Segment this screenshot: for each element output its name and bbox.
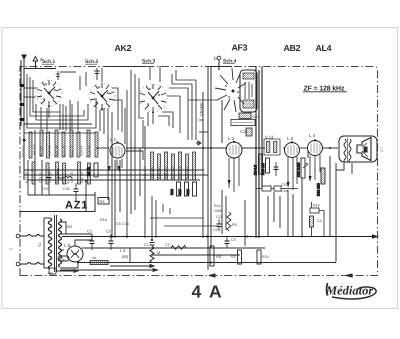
wire bus y124 <box>24 123 92 125</box>
svg-text:C47: C47 <box>42 187 49 191</box>
svg-text:R11 0.5M: R11 0.5M <box>297 162 301 177</box>
cluster R18 C4 <box>310 202 325 236</box>
coil L11 <box>54 132 65 157</box>
svg-text:R6 2k: R6 2k <box>86 167 90 176</box>
antenna terminal A <box>22 55 26 66</box>
wire drops Sch.1 to coils <box>24 101 104 134</box>
svg-text:S9 180: S9 180 <box>39 146 43 157</box>
svg-text:C11: C11 <box>216 215 222 219</box>
svg-text:(M): (M) <box>122 254 129 259</box>
resistor R16 vertical <box>170 182 181 196</box>
Mediator logo <box>325 283 376 299</box>
svg-text:R4: R4 <box>100 199 106 204</box>
earth terminal <box>33 57 43 70</box>
switch rosette Sch.2 <box>89 83 115 109</box>
secondary taps <box>60 222 78 268</box>
svg-text:C1: C1 <box>87 229 93 234</box>
svg-text:R18: R18 <box>313 204 320 208</box>
wire verticals mid-left column <box>203 67 222 271</box>
svg-text:C9: C9 <box>213 228 218 232</box>
wire bus y255 <box>152 254 240 256</box>
cathode arrow L2 <box>228 180 231 186</box>
coil L14 <box>79 130 90 157</box>
coil L9 <box>39 132 50 158</box>
capacitor trimmer near Sch.2 <box>94 68 100 80</box>
svg-text:C6: C6 <box>231 238 236 242</box>
tube L1 <box>110 137 125 170</box>
capacitor C2 power <box>106 229 114 251</box>
coil group under Sch3 g1 <box>143 152 154 180</box>
svg-text:R1p: R1p <box>100 218 107 222</box>
resistor ws hatched <box>90 256 108 265</box>
wire loops below Sch.2 <box>80 68 122 136</box>
junction blobs on rail <box>20 84 26 141</box>
IF transformer S13 <box>264 135 280 156</box>
output transformer and speaker <box>323 136 377 163</box>
svg-text:C49: C49 <box>281 189 288 193</box>
svg-text:S14 60: S14 60 <box>79 145 83 156</box>
svg-text:4.7: 4.7 <box>380 147 384 152</box>
svg-text:L 5: L 5 <box>64 243 71 248</box>
resistor R19 vertical <box>186 182 197 196</box>
coil L7 <box>21 132 32 158</box>
label Sch.1 <box>42 59 56 65</box>
svg-text:C57: C57 <box>281 183 288 187</box>
svg-text:S11 88: S11 88 <box>54 145 58 156</box>
resistor R9 under L3 <box>254 154 263 175</box>
resistor R13 under L4 <box>317 168 326 196</box>
resistor R8 <box>210 246 221 266</box>
choke L6 label <box>120 248 129 259</box>
cathode arrow L1 b <box>118 166 121 172</box>
svg-text:S21 105: S21 105 <box>178 166 182 179</box>
svg-text:AB2: AB2 <box>284 43 301 53</box>
wire mid horizontal y218 <box>150 217 203 219</box>
svg-text:L 2: L 2 <box>228 136 235 141</box>
wire verticals under Sch3 to bus <box>108 126 145 238</box>
mains terminal upper <box>16 234 20 238</box>
capacitor C6 <box>225 237 236 248</box>
cathode arrow L4 <box>309 176 312 182</box>
svg-text:S22 125: S22 125 <box>185 166 189 179</box>
tube L3 <box>285 136 300 190</box>
svg-text:S2: S2 <box>67 224 73 229</box>
cluster C49 <box>256 183 298 193</box>
wire bus y262 <box>78 262 336 264</box>
svg-text:C1: C1 <box>144 243 149 247</box>
svg-text:L 4: L 4 <box>309 133 316 138</box>
svg-text:ws: ws <box>92 256 97 260</box>
svg-text:S 13: S 13 <box>265 135 274 140</box>
svg-text:R17: R17 <box>178 189 182 195</box>
power transformer S1 <box>38 215 62 272</box>
potentiometer R11 <box>297 158 309 178</box>
wire top bus into Sch rosettes <box>24 67 232 73</box>
svg-text:S7 200: S7 200 <box>21 146 25 157</box>
wire loops below Sch.1 <box>27 74 96 133</box>
coil group under Sch3 g2 <box>150 154 161 180</box>
resistor M1 <box>150 246 160 263</box>
coil group under Sch3 g3 <box>157 152 168 180</box>
wire mid horizontal y226 <box>164 225 219 227</box>
capacitor C47 <box>42 168 52 191</box>
svg-text:L 6: L 6 <box>120 248 126 253</box>
svg-text:S10 55: S10 55 <box>47 145 51 156</box>
wire heavy middle bundle <box>256 67 262 239</box>
cluster R1p C11 above <box>213 204 222 232</box>
coil L8 <box>32 130 43 156</box>
svg-text:R9 0.5: R9 0.5 <box>254 165 258 175</box>
capacitor C1 power <box>87 229 95 251</box>
schematic dash-dot frame <box>20 67 378 277</box>
mains switch upper <box>20 235 44 237</box>
wire right-bottom corner <box>130 248 336 263</box>
resistor R2 <box>231 250 242 264</box>
AZ1 box boundary <box>20 192 95 212</box>
svg-text:AZ1: AZ1 <box>65 200 88 212</box>
svg-text:Médiator: Médiator <box>325 284 373 298</box>
wire AZ1 area links <box>28 130 95 211</box>
coil L10 <box>47 130 58 157</box>
svg-text:C2: C2 <box>165 243 170 247</box>
switch rosette Sch.3 <box>139 84 167 112</box>
capacitor C44 <box>239 113 260 119</box>
svg-text:S18 110: S18 110 <box>157 167 161 179</box>
coil L19 <box>63 176 72 191</box>
coil group under Sch3 g5 <box>171 152 182 180</box>
svg-text:S8 420: S8 420 <box>32 144 36 155</box>
svg-text:S 5: S 5 <box>59 257 64 261</box>
coil row2 e <box>70 162 81 184</box>
mains switch lower <box>20 263 44 265</box>
svg-text:ZF = 128 kHz: ZF = 128 kHz <box>304 85 345 93</box>
coil row2 a <box>24 162 35 184</box>
capacitor C30 under L3 <box>274 162 279 176</box>
rectifier tube L5 <box>64 243 83 262</box>
capacitor C36 <box>74 183 79 197</box>
wire bus y248 <box>82 247 265 249</box>
resistor R6 <box>86 163 98 177</box>
resistor R1s horizontal zigzag <box>171 246 186 250</box>
label Sch.4 <box>223 59 237 65</box>
label ZF = 128 kHz <box>303 85 347 93</box>
coil group under Sch3 g7 <box>185 152 196 180</box>
svg-text:4 A: 4 A <box>192 282 224 302</box>
svg-text:R2: R2 <box>231 255 236 259</box>
svg-text:S13 70: S13 70 <box>69 145 73 156</box>
svg-text:S20 130: S20 130 <box>171 166 175 179</box>
svg-text:M: M <box>157 251 160 255</box>
wire loops left of Sch.4 <box>188 100 218 132</box>
resistor R5 <box>227 212 237 231</box>
svg-text:R24: R24 <box>262 255 269 259</box>
wire rectifier output <box>65 234 92 268</box>
wire bus y175 <box>24 174 208 176</box>
wire arrow S4 <box>49 268 78 274</box>
wire steps right of Sch3 loop <box>151 196 170 241</box>
svg-text:L 3: L 3 <box>287 136 294 141</box>
svg-text:C2: C2 <box>106 229 112 234</box>
mains terminal lower <box>16 262 20 266</box>
svg-text:S12 40: S12 40 <box>62 145 66 156</box>
coil row2 f <box>80 163 91 184</box>
svg-text:R16: R16 <box>170 189 174 195</box>
resistor R4 box <box>98 198 109 205</box>
vertical drops under L2 region <box>222 190 293 246</box>
svg-text:S1: S1 <box>38 242 42 247</box>
cathode arrow L3 <box>287 182 290 188</box>
label Sch.2 <box>85 59 99 65</box>
wire antenna rail <box>21 60 24 180</box>
svg-text:S17 140: S17 140 <box>150 166 154 179</box>
terminal D above AF3 <box>214 56 221 70</box>
tube L2 <box>226 136 242 192</box>
svg-text:R19: R19 <box>186 189 190 195</box>
capacitor C1 mid symbol <box>150 243 155 246</box>
svg-text:C36: C36 <box>63 187 70 191</box>
wire grid line into L1 <box>96 141 227 160</box>
coil L15 <box>87 132 98 157</box>
svg-text:R8: R8 <box>216 255 221 259</box>
svg-text:100k: 100k <box>214 209 222 213</box>
coil row2 d <box>55 163 66 184</box>
wire bus from transformer down <box>336 163 352 174</box>
svg-text:AL4: AL4 <box>316 43 332 53</box>
wire L2-L3 couplings <box>242 147 307 149</box>
svg-text:R13 150: R13 150 <box>317 183 321 196</box>
resistor R17 vertical <box>178 182 189 196</box>
coil row2 c <box>48 162 59 184</box>
coil group under Sch3 g6 <box>178 154 189 180</box>
wire drops Sch.2 Sch.3 bundle <box>112 66 160 144</box>
capacitor C18 <box>240 128 252 136</box>
svg-text:R5: R5 <box>232 223 237 227</box>
svg-text:~: ~ <box>9 247 13 253</box>
coil L13 <box>69 132 80 157</box>
arrow on bottom border <box>209 274 352 277</box>
wire loops around Sch.3 <box>127 70 196 148</box>
resistor R10 under L3 <box>261 158 270 175</box>
label Sch.3 <box>142 59 156 65</box>
coil group under Sch3 g4 <box>164 154 175 180</box>
svg-text:AK2: AK2 <box>115 43 132 53</box>
wire verticals right section <box>302 150 336 262</box>
coil row2 b <box>38 163 49 184</box>
heater winding S5 <box>58 256 69 261</box>
resistor R24 <box>257 250 269 264</box>
svg-text:S15 90: S15 90 <box>87 145 91 156</box>
svg-text:S19 100: S19 100 <box>164 166 168 179</box>
wire bus main B+ <box>62 235 377 238</box>
svg-text:AF3: AF3 <box>232 43 248 53</box>
svg-text:C31 25: C31 25 <box>80 172 84 183</box>
switch starburst Sch.4 <box>215 68 246 112</box>
wire rail to Sch1 <box>24 71 61 97</box>
cathode arrow L1 a <box>108 166 111 172</box>
svg-text:L 1: L 1 <box>110 137 117 142</box>
switch wafer box <box>231 120 255 126</box>
wire bus y180 <box>28 179 200 181</box>
switch rosette Sch.1 <box>36 80 62 106</box>
svg-text:L19: L19 <box>63 181 69 185</box>
coil L12 <box>62 130 73 157</box>
svg-text:R10 1M: R10 1M <box>261 163 265 175</box>
svg-text:R1p: R1p <box>214 204 221 208</box>
svg-text:C4: C4 <box>317 219 322 223</box>
wire bus y170 <box>24 169 204 171</box>
svg-text:C18: C18 <box>240 129 248 134</box>
svg-text:C5-C1b: C5-C1b <box>116 222 129 226</box>
wire power bottom run <box>60 265 158 272</box>
tube L4 <box>308 133 323 180</box>
tube AF3 block <box>240 70 257 112</box>
